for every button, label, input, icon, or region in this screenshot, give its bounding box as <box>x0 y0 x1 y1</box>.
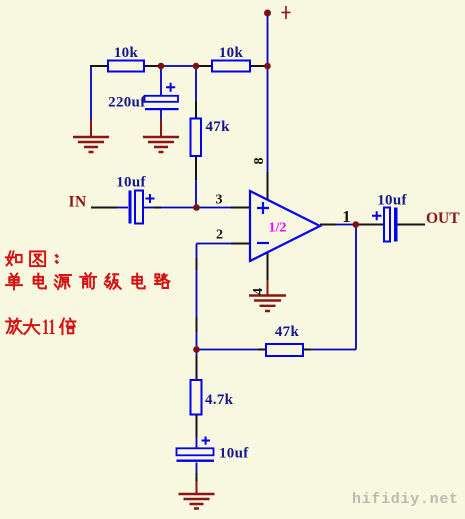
svg-text:1/2: 1/2 <box>269 221 287 236</box>
svg-text:11: 11 <box>42 314 56 339</box>
svg-text:10k: 10k <box>114 45 139 61</box>
svg-text:47k: 47k <box>275 324 300 340</box>
svg-text:hifidiy.net: hifidiy.net <box>352 491 459 508</box>
svg-text:10uf: 10uf <box>116 175 146 191</box>
svg-text:8: 8 <box>252 158 267 165</box>
svg-text:10uf: 10uf <box>219 446 249 462</box>
svg-text:10uf: 10uf <box>377 193 407 209</box>
svg-text:IN: IN <box>69 194 87 211</box>
svg-text:4: 4 <box>251 288 266 295</box>
svg-text:3: 3 <box>216 193 223 208</box>
svg-text:OUT: OUT <box>426 210 460 227</box>
svg-text:2: 2 <box>216 228 223 243</box>
svg-text:220uf: 220uf <box>108 95 146 111</box>
svg-text:47k: 47k <box>206 119 231 135</box>
svg-text:4.7k: 4.7k <box>205 392 234 408</box>
svg-text:10k: 10k <box>219 45 244 61</box>
svg-text:1: 1 <box>342 207 350 226</box>
